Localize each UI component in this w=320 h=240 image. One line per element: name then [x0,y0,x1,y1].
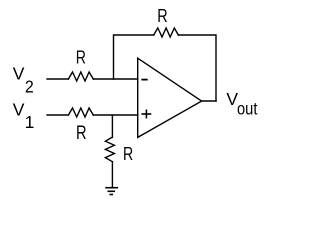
svg-text:R: R [123,144,133,164]
svg-text:2: 2 [25,77,34,97]
svg-text:V: V [13,63,25,83]
svg-text:R: R [76,48,86,68]
svg-text:out: out [237,99,258,119]
svg-text:1: 1 [25,112,35,132]
svg-text:V: V [13,100,25,120]
svg-text:R: R [157,5,167,26]
svg-text:R: R [76,123,87,144]
